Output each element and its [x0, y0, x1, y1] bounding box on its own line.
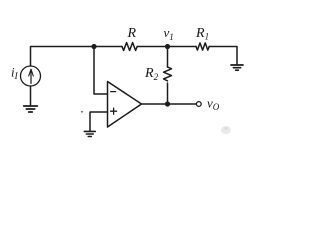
resistor R2	[164, 67, 172, 81]
wire op-amp noninverting input to ground	[90, 112, 108, 131]
op-amp minus sign	[111, 91, 116, 93]
op-amp U1	[108, 82, 142, 128]
faint scan smudge	[221, 126, 231, 134]
wire v1 to R1	[168, 46, 197, 48]
svg-text:R: R	[127, 26, 137, 41]
wire R1 to right ground	[209, 47, 237, 65]
node v1 dot	[165, 44, 170, 49]
svg-text:iI: iI	[11, 65, 19, 82]
svg-text:v1: v1	[164, 25, 174, 42]
output terminal circle	[196, 102, 201, 107]
current source i_I	[21, 66, 41, 86]
ground (op-amp + input)	[84, 131, 95, 136]
op-amp plus sign	[111, 108, 117, 114]
wire R2 to node B	[167, 83, 169, 104]
wire top-left from current source to node A	[31, 47, 123, 67]
wire v1 down to R2	[167, 47, 169, 68]
ground (below current source)	[24, 106, 38, 112]
node B dot (output junction)	[165, 101, 170, 106]
ground (right of R1)	[231, 65, 243, 70]
wire op-amp output to node B	[142, 103, 197, 105]
resistor R	[122, 43, 137, 51]
svg-text:vO: vO	[207, 95, 220, 112]
stray scan speck	[81, 111, 83, 113]
node A dot	[91, 44, 96, 49]
wire R to node v1	[137, 46, 167, 48]
svg-text:R2: R2	[144, 66, 159, 82]
svg-text:R1: R1	[195, 26, 209, 42]
wire current source to ground	[30, 86, 32, 105]
node A junction wire down to op-amp inverting input	[94, 47, 108, 95]
resistor R1	[196, 43, 209, 50]
